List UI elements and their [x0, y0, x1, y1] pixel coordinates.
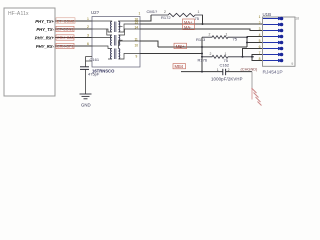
wire MB+ to RJ45 pin3: [158, 46, 247, 48]
RJ45 pin 6 arrow: [263, 47, 283, 51]
svg-text:75: 75: [195, 16, 200, 21]
net label ETX-: [56, 26, 74, 31]
RJ45 pin 8 arrow: [263, 59, 283, 63]
transformer U2 body: [92, 17, 140, 68]
junction: [201, 71, 203, 73]
RJ45 pin 5 arrow: [263, 41, 283, 45]
svg-text:ET+COM2: ET+COM2: [57, 19, 75, 23]
resistor R172 (75 ohm): [151, 13, 203, 16]
svg-text:GND: GND: [81, 103, 91, 108]
net label MA-: [183, 24, 195, 29]
svg-text:75: 75: [233, 37, 238, 42]
wire to RJ45 pin6: [243, 49, 263, 57]
capacitor C162: [223, 69, 226, 75]
junction: [202, 23, 204, 25]
svg-text:RJ4541P: RJ4541P: [263, 69, 283, 75]
wire R113 to RJ45 pins 4,5: [247, 37, 263, 48]
wire PHY_TX- to transformer: [55, 28, 92, 30]
svg-text:5: 5: [259, 39, 261, 43]
net label MB+: [174, 43, 187, 49]
junction: [201, 56, 203, 58]
centre-tap bus wire: [201, 37, 203, 71]
svg-text:PHY_TX+: PHY_TX+: [35, 19, 54, 24]
svg-text:U2?: U2?: [91, 10, 100, 15]
svg-text:3: 3: [259, 27, 261, 31]
svg-text:PHY_RX-: PHY_RX-: [36, 44, 55, 49]
svg-text:R172: R172: [161, 15, 171, 20]
svg-text:1: 1: [139, 12, 141, 16]
transformer winding unit 2 core: [113, 35, 115, 46]
svg-text:1: 1: [217, 68, 219, 72]
svg-text:PHY_TX-: PHY_TX-: [36, 27, 54, 32]
wire C161 to ground: [85, 69, 87, 94]
RJ45 pin 7 arrow: [263, 53, 283, 57]
svg-text:1000pF/2KVHP: 1000pF/2KVHP: [211, 76, 243, 81]
svg-text:ET-CON1: ET-CON1: [57, 28, 73, 32]
svg-text:2: 2: [210, 52, 212, 56]
junction: [246, 36, 248, 38]
RJ45 pin 3 arrow: [263, 29, 283, 33]
transformer winding unit 3 core: [113, 49, 115, 60]
svg-text:MB+: MB+: [176, 44, 185, 49]
junction: [201, 46, 203, 48]
RJ45 pin 1 arrow: [263, 17, 283, 21]
svg-text:15: 15: [135, 20, 139, 24]
svg-text:2: 2: [87, 25, 89, 29]
wire to C162: [181, 71, 223, 73]
transformer winding unit 1 primary: [111, 22, 112, 32]
transformer winding unit 1 secondary: [119, 22, 120, 32]
svg-text:MA-: MA-: [184, 25, 192, 30]
RJ45 pin 4 arrow: [263, 35, 283, 39]
wire transformer to centre-tap bus: [140, 53, 202, 55]
svg-text:8: 8: [259, 57, 261, 61]
svg-text:11: 11: [135, 37, 139, 41]
net label ERX+: [56, 35, 74, 40]
transformer pin numbers right: [135, 17, 139, 58]
wire PHY_RX- to transformer: [55, 45, 92, 47]
resistor R113 (75 ohm): [202, 36, 247, 39]
transformer winding unit 3 primary: [111, 49, 112, 59]
svg-text:3: 3: [87, 34, 89, 38]
wire MA+ to RJ45 pin1: [140, 23, 263, 25]
svg-text:14: 14: [135, 25, 139, 29]
svg-text:10: 10: [135, 43, 139, 47]
transformer winding unit 1 core: [113, 22, 115, 33]
junction: [201, 53, 203, 55]
junction: [242, 56, 244, 58]
net label MB4: [173, 64, 186, 70]
ground symbol GND: [80, 94, 92, 99]
svg-text:C161: C161: [90, 57, 100, 62]
wire MA- to RJ45 pin2: [140, 29, 263, 31]
svg-text:2: 2: [209, 32, 211, 36]
net label ETX+: [56, 18, 75, 24]
svg-text:ERX-GP1: ERX-GP1: [57, 45, 73, 49]
chassis ground symbol: [252, 88, 262, 106]
svg-text:R113: R113: [196, 37, 206, 42]
svg-text:PHY_RX+: PHY_RX+: [35, 36, 55, 41]
svg-text:475pF: 475pF: [88, 72, 100, 77]
svg-text:18: 18: [295, 17, 299, 21]
net label MA+: [183, 19, 195, 24]
wire transformer pin16 stub: [140, 15, 151, 21]
unit 3 internal wires: [92, 41, 140, 59]
svg-text:1: 1: [87, 17, 89, 21]
unit 1 internal wires: [92, 21, 140, 32]
transformer centre-tap stubs to C161: [86, 57, 93, 67]
resistor R176 (75 ohm): [202, 55, 254, 58]
svg-text:9: 9: [136, 54, 138, 58]
svg-text:HF-A11x: HF-A11x: [8, 11, 29, 17]
svg-text:MB4: MB4: [175, 64, 184, 69]
RJ45 pin 2 arrow: [263, 23, 283, 27]
svg-text:1: 1: [226, 32, 228, 36]
svg-text:CM1?: CM1?: [147, 9, 158, 14]
svg-text:7: 7: [259, 51, 261, 55]
svg-text:R176: R176: [198, 58, 208, 63]
wire PHY_TX+ to transformer: [55, 20, 92, 22]
net label ERX-: [56, 43, 74, 48]
wire R172 to MA+ net: [202, 15, 204, 24]
RJ45 pin numbers: [259, 15, 261, 61]
svg-text:9: 9: [291, 62, 293, 66]
transformer winding unit 2 secondary: [119, 35, 120, 45]
wire transformer to MB+: [140, 41, 158, 47]
wire PHY_RX+ to transformer: [55, 37, 92, 39]
junction: [251, 56, 253, 58]
svg-text:1: 1: [259, 15, 261, 19]
svg-text:4: 4: [259, 33, 261, 37]
transformer winding unit 2 primary: [111, 35, 112, 45]
RJ45 connector body: [263, 17, 296, 66]
svg-text:2: 2: [164, 10, 166, 14]
module HF-A11x box: [4, 8, 55, 96]
svg-text:2: 2: [259, 21, 261, 25]
capacitor C161: [80, 67, 89, 70]
svg-text:6: 6: [259, 45, 261, 49]
svg-text:(CHGND): (CHGND): [241, 67, 259, 72]
svg-text:U1B: U1B: [263, 12, 272, 17]
junction: [246, 42, 248, 44]
svg-text:6: 6: [87, 42, 89, 46]
unit 2 internal wires: [92, 29, 140, 40]
wire R176 to RJ45 pins 7,8: [252, 55, 263, 61]
svg-text:ERX+B00: ERX+B00: [57, 36, 73, 40]
transformer winding unit 3 secondary: [119, 49, 120, 59]
transformer U2 pin numbers left: [87, 17, 89, 46]
svg-text:MA+: MA+: [184, 19, 193, 24]
wire C162 to chassis: [226, 71, 252, 73]
svg-text:1: 1: [198, 10, 200, 14]
